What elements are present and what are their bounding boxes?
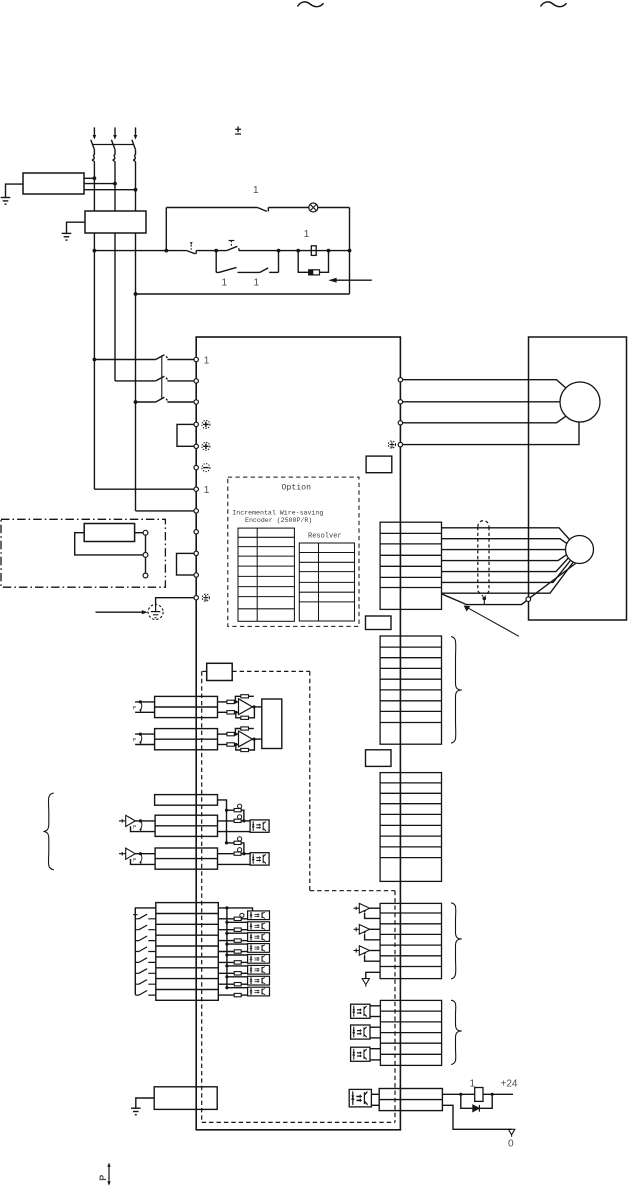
interface return wire xyxy=(442,1105,511,1129)
circuit breaker pole 3 arrow xyxy=(134,135,138,140)
self-hold branch riser xyxy=(215,251,217,273)
svg-text:P: P xyxy=(133,706,136,712)
line driver B xyxy=(354,925,370,935)
svg-text:1: 1 xyxy=(222,277,228,288)
svg-text:1: 1 xyxy=(204,485,210,496)
output opto 2 wire+ xyxy=(370,1026,380,1028)
annotation arrow (shield) xyxy=(464,605,519,636)
pulse NP output wire xyxy=(135,853,155,855)
external regenerative option box (dash-dot) xyxy=(1,519,165,587)
option dashed box xyxy=(228,477,359,626)
control wire segment 2 xyxy=(196,250,226,252)
connector box CN2 label xyxy=(366,456,392,473)
input switch 6 xyxy=(135,969,156,974)
input resistor 3 xyxy=(218,939,247,942)
svg-text:+24: +24 xyxy=(501,1078,518,1089)
encoder wire 5 xyxy=(442,558,569,572)
node diode branch right xyxy=(491,1093,494,1096)
wire L1 lower xyxy=(93,233,95,489)
noise filter wire 1 xyxy=(84,177,94,179)
self-hold contact 2 blade xyxy=(260,268,268,273)
symbol PE (amplifier) xyxy=(202,594,209,601)
wire L1 upper xyxy=(93,162,95,211)
lamp wire right xyxy=(318,207,350,209)
analog in 1 resistor+ xyxy=(218,700,239,703)
brace pulse outputs xyxy=(451,903,462,979)
shield wire xyxy=(442,594,527,605)
terminal L11 xyxy=(194,487,198,491)
COM branch 2 xyxy=(227,921,248,923)
node L3-filter xyxy=(134,188,138,192)
contactor ground symbol xyxy=(62,233,72,240)
output opto 1 wire- xyxy=(370,1016,380,1018)
input switch 3 xyxy=(135,936,156,941)
contactor main contact 2 wire xyxy=(115,380,156,382)
noise filter wire 2 xyxy=(84,183,115,185)
shield wire to encoder xyxy=(530,564,575,598)
indicator lamp xyxy=(309,203,318,212)
polarity mark ± xyxy=(235,126,241,134)
brace digital outputs xyxy=(451,1000,462,1064)
input resistor 7 xyxy=(218,983,247,986)
input resistor 5 xyxy=(218,961,247,964)
lamp NC switch blade xyxy=(257,208,268,212)
flywheel diode xyxy=(473,1105,480,1112)
encoder option table xyxy=(238,528,294,621)
logic ground wire xyxy=(366,972,380,978)
input switch 5 xyxy=(135,958,156,963)
connector box CN1 label xyxy=(366,750,392,767)
input optocoupler 5 xyxy=(248,955,270,964)
interface cable box xyxy=(379,1089,442,1111)
line driver A output xyxy=(370,907,381,909)
circuit breaker pole 3 blade xyxy=(132,140,136,150)
shield connection point xyxy=(483,597,487,601)
twisted pair tie 2 xyxy=(139,733,142,745)
input optocoupler 2 xyxy=(248,922,270,931)
pullup supply box xyxy=(155,795,218,806)
terminal P2 xyxy=(194,530,198,534)
annotation arrow (ground) xyxy=(96,610,148,614)
node COM branch 4 xyxy=(225,943,228,946)
protective earth circle xyxy=(148,605,163,620)
circuit breaker pole 2 arrow xyxy=(113,135,117,140)
brace analog inputs xyxy=(44,793,54,870)
node control right xyxy=(348,249,352,253)
svg-text:0: 0 xyxy=(508,1139,514,1150)
noise filter box xyxy=(23,173,84,194)
external regenerative resistor xyxy=(84,524,134,542)
node COM branch 2 xyxy=(225,921,228,924)
self-hold wire right xyxy=(269,271,278,273)
contactor main contact 2 blade xyxy=(156,376,194,381)
feedback resistor 2 top xyxy=(235,727,253,734)
feedback resistor 1 top xyxy=(235,695,253,702)
wire L3 lower xyxy=(135,233,137,511)
shield connection stem xyxy=(483,598,485,604)
pulse input PP cable box xyxy=(155,815,217,836)
line driver Z xyxy=(354,946,370,956)
interface optocoupler xyxy=(349,1089,371,1107)
external terminal 1 xyxy=(143,530,148,535)
surge absorber branch right xyxy=(320,251,329,273)
node COM branch 7 xyxy=(225,975,228,978)
analog input 1 cable box xyxy=(155,696,218,717)
line driver Z inverted tap xyxy=(363,953,380,961)
terminal C2 xyxy=(194,573,198,577)
motor assembly box xyxy=(529,337,627,620)
line driver Z output xyxy=(370,950,381,952)
pulse input NP driver xyxy=(119,848,135,859)
battery option box xyxy=(207,663,233,680)
node diode branch left xyxy=(459,1093,462,1096)
brace CN3 xyxy=(451,637,462,744)
node L2-filter xyxy=(113,182,117,186)
input resistor 8 xyxy=(218,993,247,996)
pulse NP return wire xyxy=(131,859,156,864)
input resistor 2 xyxy=(218,928,247,931)
contactor main contact 1 wire xyxy=(94,359,155,361)
COM branch 6 xyxy=(227,965,248,967)
noise filter wire 3 xyxy=(84,189,136,191)
node COM branch 5 xyxy=(225,953,228,956)
line driver A xyxy=(354,903,370,913)
thermal ground symbol xyxy=(131,1108,141,1115)
circuit breaker linkage bar xyxy=(92,144,134,146)
contactor main contact 3 wire xyxy=(136,401,156,403)
annotation arrow (surge absorber) xyxy=(328,278,372,283)
dashed wire battery right xyxy=(232,670,310,672)
lamp wire left xyxy=(166,207,257,209)
wire W xyxy=(403,416,566,423)
self-hold wire mid xyxy=(238,271,260,273)
surge absorber xyxy=(309,270,320,275)
shield terminal xyxy=(526,597,531,602)
svg-text:1: 1 xyxy=(304,229,310,240)
control wire tap node L1 xyxy=(93,249,97,253)
encoder wire 6 xyxy=(442,561,571,583)
output optocoupler 3 xyxy=(351,1047,370,1061)
twisted pair tie NP xyxy=(139,852,142,864)
encoder circle xyxy=(566,536,594,564)
interface supply wire xyxy=(442,1093,474,1095)
connector table CN3 xyxy=(380,636,441,744)
interface opto wire+ xyxy=(371,1093,379,1095)
dashed wire battery left xyxy=(202,670,207,672)
terminal V xyxy=(398,400,402,404)
terminal PE motor xyxy=(398,442,402,446)
input resistor 6 xyxy=(218,972,247,975)
dashed boundary left xyxy=(201,671,203,1122)
COM wire to opto 1 xyxy=(218,908,252,911)
wire L3 upper xyxy=(135,162,137,211)
contactor contact linkage xyxy=(161,355,163,398)
AC source tilde left xyxy=(298,2,324,7)
optocoupler NP xyxy=(250,853,269,865)
resolver option table xyxy=(299,543,354,621)
external terminal 2 xyxy=(143,553,148,558)
symbol plus (P terminal) xyxy=(202,420,210,428)
node pullup tap 1 xyxy=(225,809,228,812)
input switch 4 xyxy=(135,947,156,952)
svg-text:P: P xyxy=(133,857,136,863)
circuit breaker pole 2 thermal element xyxy=(113,150,115,162)
control bottom wire xyxy=(136,293,350,295)
encoder wire 1 xyxy=(442,528,570,540)
servomotor circle xyxy=(560,382,600,422)
cable shield capsule xyxy=(478,521,489,597)
pullup resistor 2 xyxy=(227,837,244,854)
analog in 1 resistor- xyxy=(218,711,239,714)
input resistor 1 xyxy=(218,917,247,920)
circuit breaker pole 1 lead-in xyxy=(93,127,95,135)
OFF pushbutton blade xyxy=(187,251,197,254)
pulse output connector table xyxy=(380,903,441,978)
output opto 1 wire+ xyxy=(370,1005,380,1007)
lamp branch riser xyxy=(165,208,167,251)
terminal W xyxy=(398,421,402,425)
protective earth symbol xyxy=(151,605,160,618)
wire L2C feed xyxy=(136,510,195,512)
lamp wire mid xyxy=(268,207,309,209)
pitch arrow P xyxy=(107,1163,110,1186)
connector box CN3 label xyxy=(366,616,392,630)
output opto 2 wire- xyxy=(370,1037,380,1039)
internal regen jumper box xyxy=(177,553,197,575)
feedback resistor 1 bottom xyxy=(236,705,256,719)
COM distribution bus xyxy=(226,908,228,988)
interface relay coil xyxy=(475,1088,483,1102)
digital input connector block xyxy=(156,903,219,1001)
line driver A inverted tap xyxy=(363,911,380,919)
feedback resistor 2 bottom xyxy=(236,738,256,752)
svg-text:Incremental Wire-saving: Incremental Wire-saving xyxy=(232,510,323,517)
input optocoupler 4 xyxy=(248,944,270,953)
pulse PP return wire xyxy=(131,826,156,831)
external resistor wire right xyxy=(135,532,144,534)
node pullup tap 2 xyxy=(225,841,228,844)
node L3 contact tap xyxy=(134,400,138,404)
symbol minus (N terminal) xyxy=(202,464,210,472)
input optocoupler 7 xyxy=(248,976,270,985)
input optocoupler 3 xyxy=(248,933,270,942)
circuit breaker pole 3 thermal element xyxy=(134,150,136,162)
wire L2 lower xyxy=(114,233,116,381)
pullup resistor 1 xyxy=(227,804,244,821)
interface opto wire- xyxy=(371,1104,379,1106)
dashed boundary jog xyxy=(310,890,395,892)
input switch 2 xyxy=(135,925,156,930)
analog input 2 cable box xyxy=(155,729,218,750)
diode branch wire left xyxy=(461,1094,473,1108)
line driver B inverted tap xyxy=(363,932,380,940)
svg-text:Resolver: Resolver xyxy=(308,533,342,541)
contactor ground wire xyxy=(67,222,86,233)
logic ground arrow xyxy=(362,979,369,987)
pullup feed wire xyxy=(218,800,227,843)
node lamp branch xyxy=(164,249,168,253)
series resistor PP xyxy=(218,815,251,823)
noise filter ground symbol xyxy=(1,198,11,205)
terminal L21 xyxy=(194,509,198,513)
svg-text:1: 1 xyxy=(253,185,259,196)
dashed boundary bottom xyxy=(202,1121,395,1123)
wire motor PE xyxy=(403,422,579,445)
control wire segment 3 xyxy=(239,250,350,252)
twisted pair tie PP xyxy=(139,819,142,831)
terminal D xyxy=(194,551,198,555)
node L1 contact tap xyxy=(93,358,97,362)
node self-hold branch xyxy=(214,249,218,253)
circuit breaker pole 2 blade xyxy=(111,140,115,150)
output optocoupler 1 xyxy=(351,1004,370,1018)
terminal PE xyxy=(194,596,198,600)
self-hold contact 1 blade xyxy=(216,267,236,272)
svg-text:1: 1 xyxy=(204,355,210,366)
input resistor 4 xyxy=(218,950,247,953)
COM branch 4 xyxy=(227,943,248,945)
connector table CN1A xyxy=(380,773,441,882)
ON pushbutton actuator xyxy=(229,241,235,247)
analog input 1 wire- xyxy=(135,711,155,713)
svg-text:P: P xyxy=(133,738,136,744)
COM branch 5 xyxy=(227,954,248,956)
input bus tick xyxy=(133,914,138,916)
node L3 control tap xyxy=(134,292,138,296)
thermal sensor box xyxy=(154,1087,217,1110)
wire U xyxy=(403,380,566,388)
external terminal 3 xyxy=(143,573,148,578)
svg-text:1: 1 xyxy=(254,277,260,288)
control wire segment 1 xyxy=(94,250,186,252)
input switch 1 xyxy=(135,914,156,919)
external resistor loop wire xyxy=(75,533,143,555)
optocoupler PP xyxy=(250,820,269,832)
analog input 1 wire+ xyxy=(135,701,155,703)
circuit breaker pole 1 arrow xyxy=(93,135,97,140)
node COM branch 8 xyxy=(225,986,228,989)
encoder wire 7 xyxy=(442,563,574,594)
output optocoupler 2 xyxy=(351,1025,370,1039)
analog input 2 wire+ xyxy=(135,733,155,735)
pulse input PP driver xyxy=(119,815,135,826)
thermal ground wire xyxy=(136,1098,154,1108)
op-amp 2 xyxy=(239,731,253,747)
analog in 2 resistor- xyxy=(218,743,239,746)
svg-text:Encoder (2500P/R): Encoder (2500P/R) xyxy=(245,517,312,524)
node COM branch 3 xyxy=(225,932,228,935)
svg-text:P: P xyxy=(133,825,136,831)
noise filter ground wire xyxy=(6,184,24,197)
op-amp 1 xyxy=(239,699,253,715)
pulse NP return to opto xyxy=(218,863,251,865)
terminal P xyxy=(194,422,198,426)
0V open arrow xyxy=(508,1129,514,1137)
node self-hold return xyxy=(277,249,281,253)
circuit breaker pole 2 lead-in xyxy=(114,127,116,135)
input optocoupler 6 xyxy=(248,965,270,974)
terminal N xyxy=(194,465,198,469)
interface supply wire right xyxy=(483,1093,513,1095)
input resistor 1 circle xyxy=(240,913,244,917)
input common bus wire xyxy=(135,908,156,995)
input switch 7 xyxy=(135,980,156,985)
wire L1C feed xyxy=(94,488,194,490)
contactor main contact 3 blade xyxy=(156,397,194,402)
input optocoupler 8 xyxy=(248,987,270,996)
encoder connector table CN2 xyxy=(380,522,441,609)
twisted pair tie 1 xyxy=(139,700,142,712)
output opto 3 wire- xyxy=(370,1059,380,1061)
terminal C xyxy=(194,444,198,448)
contactor main contact 1 blade xyxy=(156,355,194,360)
encoder wire 3 xyxy=(442,549,566,551)
ON pushbutton blade xyxy=(227,246,239,250)
contactor coil xyxy=(311,246,316,256)
node COM branch 6 xyxy=(225,964,228,967)
terminal L1 xyxy=(194,357,198,361)
output opto 3 wire+ xyxy=(370,1048,380,1050)
OFF pushbutton actuator xyxy=(190,242,193,250)
svg-text:P: P xyxy=(98,1175,108,1181)
COM branch 7 xyxy=(227,976,248,978)
pulse PP return to opto xyxy=(218,831,251,833)
line driver B output xyxy=(370,928,381,930)
COM branch 8 xyxy=(227,987,248,989)
regeneration option jumper box xyxy=(177,424,196,446)
control right riser xyxy=(349,208,351,294)
dashed boundary right vertical xyxy=(394,891,396,1123)
terminal L2 xyxy=(194,379,198,383)
node coil branch xyxy=(296,249,300,253)
servo amplifier outline xyxy=(196,337,400,1130)
circuit breaker pole 1 blade xyxy=(91,140,95,150)
A/D converter box xyxy=(262,699,282,749)
node L1-filter xyxy=(93,176,97,180)
series resistor NP xyxy=(218,848,251,856)
input switch 8 xyxy=(135,991,156,996)
dashed boundary mid vertical xyxy=(309,671,311,890)
op-amp 2 output wire xyxy=(252,738,261,740)
self-hold return riser xyxy=(278,251,280,273)
op-amp 1 output wire xyxy=(252,706,261,708)
pulse PP output wire xyxy=(135,820,155,822)
encoder wire 2 xyxy=(442,539,568,544)
symbol PE (motor) xyxy=(388,441,395,448)
analog in 2 resistor+ xyxy=(218,732,239,735)
symbol plus (C terminal) xyxy=(202,442,210,450)
external terminal link xyxy=(145,533,147,576)
encoder wire 4 xyxy=(442,555,567,561)
diode branch wire right xyxy=(479,1094,492,1108)
magnetic contactor box xyxy=(85,211,146,233)
analog input 2 wire- xyxy=(135,744,155,746)
circuit breaker pole 3 lead-in xyxy=(135,127,137,135)
input optocoupler 1 xyxy=(248,911,270,920)
PE ground wire xyxy=(156,598,194,605)
AC source tilde right xyxy=(541,2,567,7)
COM branch 3 xyxy=(227,932,248,934)
wire L2 upper xyxy=(114,162,116,211)
pulse input NP cable box xyxy=(155,848,217,869)
node surge return xyxy=(327,249,331,253)
terminal L3 xyxy=(194,400,198,404)
wire V xyxy=(403,401,560,403)
digital output connector table xyxy=(380,1000,441,1065)
svg-text:Option: Option xyxy=(282,483,312,493)
circuit breaker pole 1 thermal element xyxy=(92,150,94,162)
surge absorber branch left xyxy=(298,251,309,273)
